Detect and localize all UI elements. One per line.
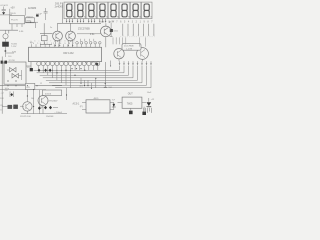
svg-text:32.768: 32.768 <box>9 60 16 62</box>
svg-text:4N35: 4N35 <box>94 98 100 100</box>
svg-text:20-1780B: 20-1780B <box>124 46 134 48</box>
svg-text:R9: R9 <box>1 105 3 107</box>
svg-text:10uF: 10uF <box>147 92 152 94</box>
svg-text:+5V: +5V <box>10 7 15 10</box>
svg-text:25: 25 <box>6 5 8 7</box>
svg-text:(P): (P) <box>80 106 83 108</box>
svg-text:4x: 4x <box>85 62 87 64</box>
svg-text:40106: 40106 <box>45 93 52 95</box>
svg-text:ZSC2785B: ZSC2785B <box>78 28 90 31</box>
svg-text:←100uF: ←100uF <box>54 112 63 114</box>
svg-text:12V/25 100: 12V/25 100 <box>20 116 31 118</box>
svg-text:+12: +12 <box>1 92 4 94</box>
svg-text:LM35: LM35 <box>26 21 32 23</box>
svg-text:NJM: NJM <box>12 52 16 54</box>
svg-text:12: 12 <box>40 83 42 85</box>
svg-text:OUT: OUT <box>128 93 134 96</box>
svg-text:7-11V: 7-11V <box>11 46 17 48</box>
svg-text:a b c d e f g dp D1 D2: a b c d e f g dp D1 D2 <box>31 41 75 43</box>
svg-text:AC8080: AC8080 <box>28 7 37 10</box>
svg-text:1k: 1k <box>0 109 2 111</box>
svg-text:2x4DIG: 2x4DIG <box>55 6 64 9</box>
svg-text:10k: 10k <box>31 98 34 100</box>
svg-text:1N4148: 1N4148 <box>46 116 54 118</box>
svg-text:ZTX2547: ZTX2547 <box>49 100 59 102</box>
svg-text:78L05: 78L05 <box>10 13 17 15</box>
svg-text:7805: 7805 <box>127 102 133 105</box>
svg-text:PCL70: PCL70 <box>11 20 18 22</box>
svg-text:1N5817: 1N5817 <box>26 16 33 18</box>
svg-text:1-2/3B: 1-2/3B <box>126 48 133 50</box>
svg-text:IOR 1432: IOR 1432 <box>63 52 74 55</box>
svg-text:100n: 100n <box>147 106 151 108</box>
